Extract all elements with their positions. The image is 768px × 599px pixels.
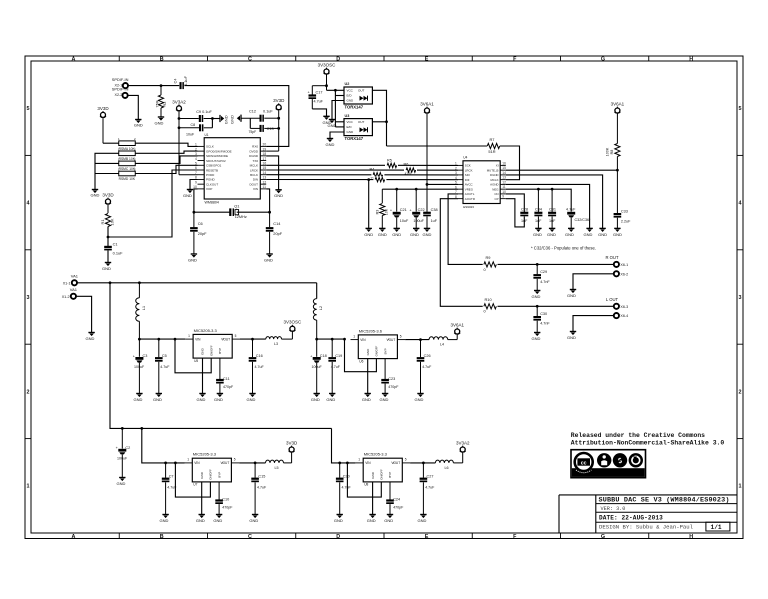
node C20 xyxy=(338,462,341,465)
svg-text:VIN: VIN xyxy=(194,461,200,465)
svg-text:10uF: 10uF xyxy=(400,219,409,223)
wire AVCC to pin xyxy=(427,183,458,185)
ground C7 xyxy=(160,515,169,524)
wire U7 gnd pin xyxy=(201,482,203,515)
svg-text:1uF: 1uF xyxy=(431,219,438,223)
ground R3 xyxy=(378,228,387,237)
border frame outer xyxy=(25,56,743,539)
wire U5 on/off tie xyxy=(175,339,211,373)
capacitor C14 20pF xyxy=(266,212,283,254)
svg-text:GND: GND xyxy=(196,518,205,523)
regulator U7 MIC5205-3.3 xyxy=(185,452,240,487)
node AVCC xyxy=(426,183,429,186)
node C18 xyxy=(315,338,318,341)
svg-text:3V3A2: 3V3A2 xyxy=(172,99,186,104)
optical receiver U3 TORX147 xyxy=(344,114,372,141)
svg-text:R3: R3 xyxy=(376,210,380,215)
svg-text:GND: GND xyxy=(328,123,337,128)
wire X1-2 to ground xyxy=(76,296,92,332)
svg-text:LRCK: LRCK xyxy=(250,168,258,172)
node C16 xyxy=(251,338,254,341)
svg-text:0: 0 xyxy=(484,309,487,314)
wire CN to C28 xyxy=(506,194,525,212)
connector X6-2 xyxy=(614,271,628,276)
svg-text:GND: GND xyxy=(415,397,424,402)
svg-text:13: 13 xyxy=(263,176,267,180)
resistor R4 22R xyxy=(370,167,385,180)
svg-text:TORX147: TORX147 xyxy=(345,136,364,141)
svg-text:4.7nF: 4.7nF xyxy=(540,322,550,326)
svg-text:C3: C3 xyxy=(143,354,148,358)
wire X6-4 to ground xyxy=(573,316,614,332)
svg-text:GND: GND xyxy=(134,397,143,402)
power 3V3D reset xyxy=(102,193,114,214)
svg-text:4: 4 xyxy=(195,157,197,161)
svg-text:10uF: 10uF xyxy=(186,133,195,137)
wire bus SDI xyxy=(266,174,458,176)
svg-text:RSMA 10K: RSMA 10K xyxy=(119,147,136,151)
border frame inner xyxy=(31,61,737,533)
svg-text:SCLK: SCLK xyxy=(206,145,214,149)
node 3V3OSC xyxy=(325,84,328,87)
svg-text:19: 19 xyxy=(263,147,267,151)
svg-text:U3: U3 xyxy=(345,114,350,118)
svg-text:C34: C34 xyxy=(535,208,542,212)
svg-text:R OUT: R OUT xyxy=(605,255,618,260)
CC license logo xyxy=(571,450,646,478)
power 3V3A2 output xyxy=(453,441,470,463)
wire MCLK line to R7 xyxy=(387,145,488,147)
svg-text:CSB/GPO1: CSB/GPO1 xyxy=(206,164,222,168)
svg-text:VCC: VCC xyxy=(347,120,354,124)
node U6 on/off xyxy=(343,338,346,341)
svg-text:4.7uF: 4.7uF xyxy=(422,365,432,369)
svg-text:RESETB: RESETB xyxy=(206,168,218,172)
svg-text:3V3D: 3V3D xyxy=(97,106,109,111)
capacitor C12 0.1uF xyxy=(241,109,279,121)
svg-text:GND: GND xyxy=(214,397,223,402)
capacitor C3 100uF xyxy=(133,339,148,393)
inductor L4 xyxy=(429,337,448,347)
svg-text:C21: C21 xyxy=(400,208,407,212)
connector X6-1 R OUT xyxy=(605,255,628,267)
power 3V6A1 mute pullup xyxy=(611,102,625,144)
svg-text:5: 5 xyxy=(739,106,742,112)
wire VIN row U6 xyxy=(317,338,345,340)
resistor R9 0 xyxy=(484,255,497,272)
svg-text:1: 1 xyxy=(187,458,189,462)
capacitor C29 4.7nF xyxy=(533,264,550,290)
ground C19 xyxy=(326,394,335,403)
svg-text:2: 2 xyxy=(195,147,197,151)
capacitor C34 1uF xyxy=(534,189,542,228)
resistor R2 75R xyxy=(154,86,167,117)
svg-text:ON/OFF: ON/OFF xyxy=(209,345,213,356)
wire U6 gnd pin xyxy=(367,359,369,394)
svg-text:5: 5 xyxy=(400,334,402,338)
ground U5 xyxy=(197,394,206,403)
svg-text:C15: C15 xyxy=(258,475,265,479)
svg-text:1uF: 1uF xyxy=(549,219,556,223)
svg-text:X1-1: X1-1 xyxy=(63,281,71,285)
svg-text:C: C xyxy=(248,57,252,63)
svg-text:4.7uF: 4.7uF xyxy=(160,365,170,369)
wire CP to C28 xyxy=(506,199,525,227)
svg-text:L5: L5 xyxy=(274,466,278,470)
svg-text:DOUT: DOUT xyxy=(250,182,259,186)
svg-text:1: 1 xyxy=(27,484,30,490)
svg-text:4.7uF: 4.7uF xyxy=(255,365,265,369)
svg-text:C9 0.1uF: C9 0.1uF xyxy=(196,110,212,114)
node U7 on/off xyxy=(174,462,177,465)
svg-text:20pF: 20pF xyxy=(273,231,282,236)
capacitor C10 470pF xyxy=(215,482,233,515)
svg-text:0.1uF: 0.1uF xyxy=(113,250,124,255)
capacitor C38 1uF xyxy=(423,208,438,228)
ground C18 xyxy=(311,394,320,403)
svg-text:11: 11 xyxy=(263,185,267,189)
ground C16 xyxy=(247,394,256,403)
svg-text:+: + xyxy=(116,446,119,450)
node U8 on/off xyxy=(346,462,349,465)
svg-text:C29: C29 xyxy=(540,270,547,274)
node C26 xyxy=(419,338,422,341)
svg-text:R1: R1 xyxy=(100,220,105,225)
svg-text:GND: GND xyxy=(410,232,419,237)
svg-text:10K: 10K xyxy=(385,208,389,215)
ground C32/C36 xyxy=(565,228,574,237)
wire bus LRCK xyxy=(266,169,458,171)
svg-text:2.2uF: 2.2uF xyxy=(621,220,631,224)
svg-text:GND: GND xyxy=(380,397,389,402)
title block xyxy=(559,495,737,533)
wire R7 to MCLK pin xyxy=(500,146,520,180)
wire XOP to crystal xyxy=(194,189,198,212)
crystal Q1 12MHz xyxy=(194,203,270,219)
svg-text:A: A xyxy=(72,57,76,63)
resistor R6 22R xyxy=(404,163,418,176)
svg-text:4: 4 xyxy=(455,176,457,180)
capacitor C2 100uF xyxy=(116,428,131,477)
svg-text:E: E xyxy=(425,57,429,63)
ground PGND xyxy=(183,180,197,198)
svg-text:GND: GND xyxy=(134,123,143,128)
svg-text:1: 1 xyxy=(358,458,360,462)
wire RSM left bus to ground xyxy=(95,153,119,189)
svg-text:SDOUT/GPO2: SDOUT/GPO2 xyxy=(206,159,226,163)
ground C34 xyxy=(533,228,542,237)
svg-text:BYP: BYP xyxy=(388,472,392,478)
wire AOUTR to R10 xyxy=(440,199,482,307)
wire SPDIF line to C4 xyxy=(128,85,179,87)
svg-text:4.7nF: 4.7nF xyxy=(540,280,550,284)
node C5 xyxy=(157,338,160,341)
svg-text:MCLK: MCLK xyxy=(490,178,498,182)
svg-text:R6: R6 xyxy=(404,163,409,167)
node SPDIF/R2 xyxy=(160,84,163,87)
capacitor C23 470pF xyxy=(381,359,399,394)
svg-text:GND: GND xyxy=(183,193,192,198)
ground C1 xyxy=(102,263,111,271)
wire U6 VOUT row xyxy=(405,339,429,341)
svg-text:C7: C7 xyxy=(169,475,174,479)
svg-text:C28: C28 xyxy=(521,208,528,212)
power 3V3D DVDD xyxy=(266,98,285,151)
node RESETB xyxy=(107,236,110,239)
svg-text:GND: GND xyxy=(86,336,95,341)
svg-text:Attribution-NonCommercial-Shar: Attribution-NonCommercial-ShareAlike 3.0 xyxy=(571,439,725,446)
wire bus DIF xyxy=(266,179,458,181)
svg-text:3V6A1: 3V6A1 xyxy=(450,323,464,328)
ground U6 xyxy=(362,394,371,403)
node C30 xyxy=(536,305,539,308)
svg-text:470pF: 470pF xyxy=(388,385,399,389)
svg-text:GND: GND xyxy=(91,193,100,198)
svg-text:C10: C10 xyxy=(222,497,229,501)
svg-text:3: 3 xyxy=(455,171,457,175)
svg-text:100K: 100K xyxy=(606,147,610,156)
wire AGND line xyxy=(506,184,590,228)
svg-text:GND: GND xyxy=(378,232,387,237)
svg-text:VA1: VA1 xyxy=(71,274,79,279)
wire MUTE_B line xyxy=(506,169,618,171)
svg-text:R10: R10 xyxy=(485,297,493,302)
resistor R1 10K xyxy=(100,214,114,227)
svg-text:1: 1 xyxy=(455,162,457,166)
svg-text:5: 5 xyxy=(234,458,236,462)
svg-text:Q1: Q1 xyxy=(234,203,239,208)
svg-text:GND: GND xyxy=(347,99,355,103)
svg-text:9: 9 xyxy=(195,180,197,184)
svg-text:CLKOUT: CLKOUT xyxy=(206,182,218,186)
svg-text:1/1: 1/1 xyxy=(711,524,722,531)
svg-text:5: 5 xyxy=(27,106,30,112)
svg-text:* C32/C36 - Populate one of th: * C32/C36 - Populate one of these. xyxy=(531,246,596,251)
power 3V3D output xyxy=(284,441,298,463)
wire DGND line xyxy=(506,175,603,229)
svg-text:SDIN/HWMODE: SDIN/HWMODE xyxy=(206,154,228,158)
wire VA1 rail xyxy=(77,282,317,284)
svg-text:470pF: 470pF xyxy=(222,505,233,509)
svg-text:4.7uF: 4.7uF xyxy=(342,485,352,489)
ground U7 xyxy=(196,515,205,524)
ground C38 xyxy=(423,228,432,237)
capacitor C31 1uF xyxy=(548,189,556,228)
svg-text:BCLK: BCLK xyxy=(250,173,258,177)
ground C17 xyxy=(323,116,332,125)
capacitor C30 4.7nF xyxy=(533,306,550,332)
regulator U6 MIC5205-3.6 xyxy=(351,328,406,363)
wire U8 on/off tie xyxy=(347,463,381,497)
wire X2-2 to ground xyxy=(128,95,139,119)
frame row ticks xyxy=(25,155,743,438)
svg-text:470pF: 470pF xyxy=(223,385,234,389)
svg-text:BYP: BYP xyxy=(217,472,221,478)
svg-text:2: 2 xyxy=(455,166,457,170)
power 3V3OSC output xyxy=(282,320,303,339)
node C2 xyxy=(121,427,124,430)
svg-text:C23: C23 xyxy=(388,377,395,381)
svg-text:4.7uF: 4.7uF xyxy=(425,485,435,489)
svg-text:C33: C33 xyxy=(621,209,628,213)
svg-text:0.1uF: 0.1uF xyxy=(183,75,188,86)
svg-text:B: B xyxy=(160,534,164,540)
capacitor C15 4.7uF xyxy=(251,463,267,515)
svg-text:GND: GND xyxy=(371,471,375,479)
svg-text:GND: GND xyxy=(392,232,401,237)
wire U3 OUT xyxy=(372,121,386,123)
wire U8 VOUT row xyxy=(410,462,435,464)
node rail drop xyxy=(109,281,112,284)
svg-text:F: F xyxy=(513,534,517,540)
svg-text:U8: U8 xyxy=(364,483,368,487)
wire node to RESETB pin6 xyxy=(108,170,198,237)
svg-text:GND: GND xyxy=(102,266,111,271)
node rail L1 xyxy=(138,281,141,284)
svg-text:4.7uF: 4.7uF xyxy=(314,99,324,103)
svg-text:SCK: SCK xyxy=(465,164,471,168)
svg-text:3V3D: 3V3D xyxy=(273,98,285,103)
inductor L1 xyxy=(136,283,146,339)
wire R1 to C1 xyxy=(107,227,109,247)
wire DIF to ground xyxy=(368,180,370,229)
ground C33 xyxy=(613,228,622,237)
svg-text:20: 20 xyxy=(263,143,267,147)
connector X6-3 L OUT xyxy=(606,297,628,309)
svg-text:cc: cc xyxy=(581,461,587,467)
capacitor C32/C36 4.7uF xyxy=(566,208,591,229)
capacitor C4 0.1uF xyxy=(173,75,188,89)
IC U4 ES9023 xyxy=(455,156,506,209)
svg-text:MCLK: MCLK xyxy=(250,164,258,168)
ground X6-2 xyxy=(567,290,576,299)
svg-text:0: 0 xyxy=(484,267,487,272)
svg-text:4: 4 xyxy=(739,201,742,207)
svg-text:DIN: DIN xyxy=(253,178,258,182)
ground C14 xyxy=(264,254,273,262)
ground DGND xyxy=(598,228,607,237)
svg-text:GND: GND xyxy=(532,294,541,299)
wire C12 C13 join xyxy=(249,118,251,128)
svg-text:GND: GND xyxy=(197,397,206,402)
svg-text:VIN: VIN xyxy=(365,461,371,465)
capacitor C1 0.1uF xyxy=(104,241,123,255)
svg-text:ON/OFF: ON/OFF xyxy=(209,469,213,480)
svg-text:12: 12 xyxy=(263,180,267,184)
svg-text:X6-1: X6-1 xyxy=(620,263,628,267)
svg-text:C18: C18 xyxy=(320,354,327,358)
ground C5 xyxy=(153,394,162,403)
resistor RSMD 10K xyxy=(118,168,136,182)
wire U5 VOUT row xyxy=(240,338,266,340)
node C19 xyxy=(331,338,334,341)
ground C12 C13 xyxy=(230,115,242,124)
svg-text:GND: GND xyxy=(188,257,197,262)
connector X1-1 VA1 xyxy=(63,274,79,286)
svg-text:10: 10 xyxy=(502,190,506,194)
capacitor C9 0.1uF xyxy=(179,110,212,122)
svg-text:C13: C13 xyxy=(267,127,274,131)
svg-text:C20: C20 xyxy=(343,475,350,479)
connector X2-2 xyxy=(112,87,129,98)
svg-text:+: + xyxy=(308,90,311,94)
svg-text:Released under the Creative Co: Released under the Creative Commons xyxy=(571,432,705,439)
optical receiver U2 TORX147 xyxy=(344,82,372,109)
svg-text:GND: GND xyxy=(224,115,229,124)
node C29 xyxy=(536,263,539,266)
node C3 xyxy=(138,338,141,341)
svg-text:GND: GND xyxy=(249,518,258,523)
svg-text:15: 15 xyxy=(263,166,267,170)
node C9 xyxy=(178,117,181,120)
inductor L3 xyxy=(266,337,282,347)
svg-text:SDI: SDI xyxy=(465,173,470,177)
svg-text:100uF: 100uF xyxy=(134,365,145,369)
capacitor C26 4.7uF xyxy=(417,340,432,394)
svg-text:C4: C4 xyxy=(173,78,178,84)
frame column ticks xyxy=(119,56,649,539)
wire optical supply bus xyxy=(327,89,345,127)
svg-text:WM8804: WM8804 xyxy=(205,201,219,205)
regulator U8 MIC5205-3.3 xyxy=(355,452,410,487)
svg-text:SUBBU DAC SE V3 (WM8804/ES9023: SUBBU DAC SE V3 (WM8804/ES9023) xyxy=(599,497,730,505)
ground X6-4 xyxy=(567,332,576,341)
capacitor C13 75pF xyxy=(249,125,279,134)
svg-text:A: A xyxy=(72,534,76,540)
svg-text:4: 4 xyxy=(27,201,30,207)
wire U5 gnd pin xyxy=(202,358,204,393)
svg-text:DIF: DIF xyxy=(465,178,470,182)
svg-text:3: 3 xyxy=(195,152,197,156)
wire U8 gnd pin xyxy=(372,482,374,515)
svg-text:9: 9 xyxy=(502,195,504,199)
wire drop to U7 VIN xyxy=(142,428,185,463)
svg-text:MIC5205-3.3: MIC5205-3.3 xyxy=(194,328,218,333)
svg-text:11: 11 xyxy=(502,185,506,189)
svg-text:75pF: 75pF xyxy=(249,130,257,134)
svg-text:3V3A2: 3V3A2 xyxy=(456,441,470,446)
svg-text:AOUTL: AOUTL xyxy=(465,192,475,196)
resistor R12 22R xyxy=(373,176,386,182)
svg-text:U4: U4 xyxy=(463,156,467,160)
ground C21 xyxy=(392,228,401,237)
svg-text:AVCC: AVCC xyxy=(465,183,473,187)
svg-text:12: 12 xyxy=(502,180,506,184)
node U5 on/off xyxy=(174,338,177,341)
svg-text:SPDIF-IN: SPDIF-IN xyxy=(112,87,129,92)
wire NEG line xyxy=(506,189,571,211)
svg-text:C31: C31 xyxy=(549,208,556,212)
svg-text:C2: C2 xyxy=(125,446,130,450)
svg-text:AOUTR: AOUTR xyxy=(465,197,475,201)
svg-text:+: + xyxy=(133,354,136,358)
svg-text:C27: C27 xyxy=(427,475,434,479)
ground DGND pin18 xyxy=(266,156,283,198)
svg-text:C30: C30 xyxy=(540,312,547,316)
svg-text:GND: GND xyxy=(532,336,541,341)
wire rail to bottom row xyxy=(110,283,332,429)
svg-text:L1: L1 xyxy=(142,306,146,310)
svg-text:3V6A1: 3V6A1 xyxy=(611,102,625,107)
svg-text:1: 1 xyxy=(739,484,742,490)
node bottom drop xyxy=(140,427,143,430)
svg-text:MIC5205-3.6: MIC5205-3.6 xyxy=(359,328,383,333)
svg-text:XI: XI xyxy=(496,164,499,168)
svg-text:5: 5 xyxy=(235,334,237,338)
svg-text:VCC: VCC xyxy=(347,89,354,93)
wire RSMB to pin2 xyxy=(135,151,197,153)
svg-text:XIN: XIN xyxy=(253,187,258,191)
